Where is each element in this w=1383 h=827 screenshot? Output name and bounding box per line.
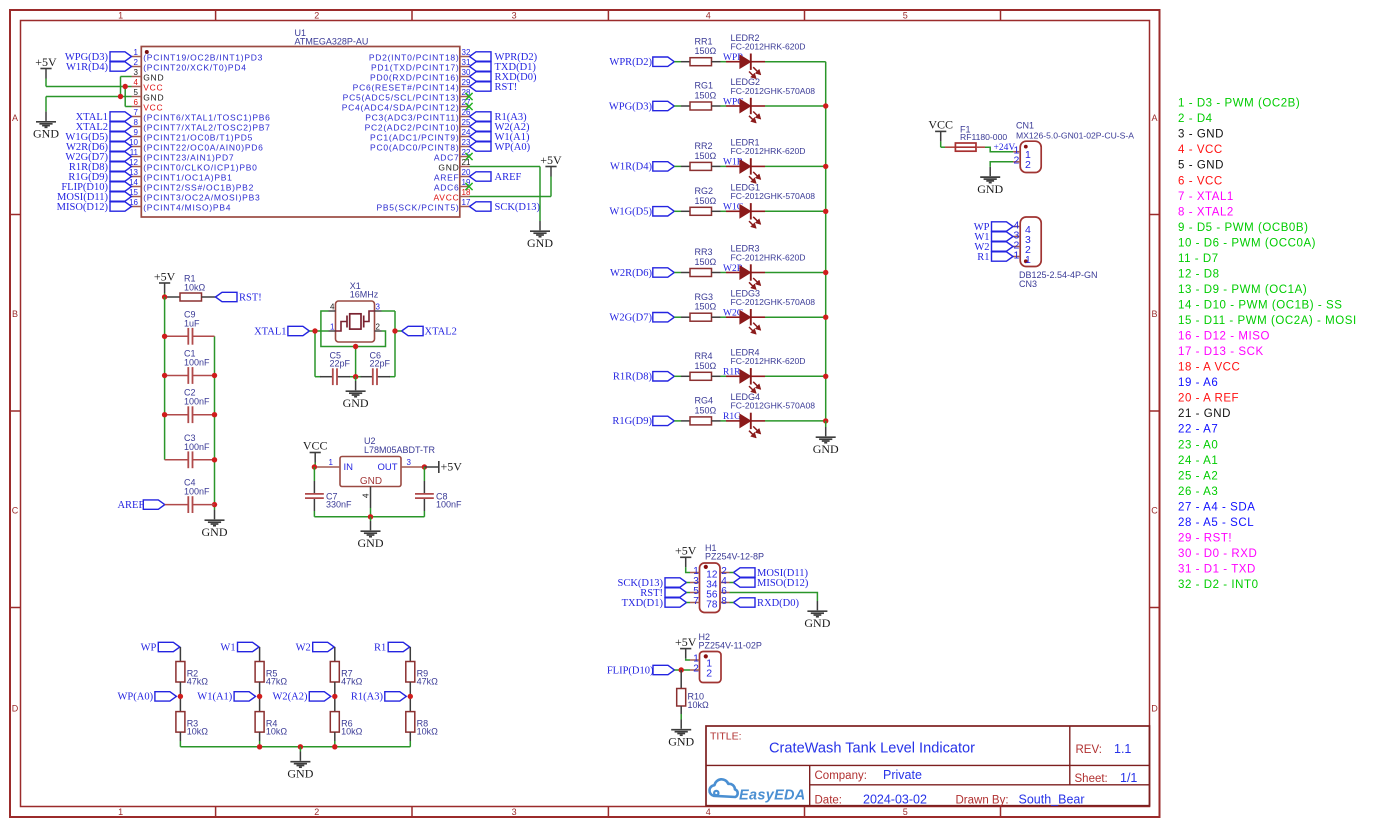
svg-text:150Ω: 150Ω — [695, 405, 717, 415]
svg-text:R1(A3): R1(A3) — [351, 692, 384, 703]
net flag R1G(D9) — [68, 172, 131, 183]
resistor R6 — [330, 712, 362, 737]
X1 pin 1 — [329, 322, 336, 331]
svg-text:(PCINT19/OC2B/INT1)PD3: (PCINT19/OC2B/INT1)PD3 — [143, 53, 263, 63]
net flag W1R(D4) — [66, 62, 132, 73]
wire XTAL1 to X1 pin1 — [309, 331, 328, 377]
svg-text:FC-2012GHK-570A08: FC-2012GHK-570A08 — [731, 297, 816, 307]
svg-text:4: 4 — [362, 493, 371, 498]
net flag W2G(D7) — [65, 152, 131, 163]
svg-text:9 - D5 - PWM (OCB0B): 9 - D5 - PWM (OCB0B) — [1178, 222, 1308, 234]
junction LED rail row 3 — [823, 164, 828, 169]
net flag RST! — [216, 292, 262, 303]
svg-text:+5V: +5V — [675, 635, 697, 649]
svg-text:W1R(D4): W1R(D4) — [66, 62, 108, 73]
U1 pin function list — [1178, 98, 1357, 591]
wire flag to RG3 — [674, 316, 681, 318]
sheet border inner frame — [21, 21, 1150, 807]
svg-text:24 - A1: 24 - A1 — [1178, 455, 1218, 467]
svg-text:22pF: 22pF — [370, 359, 391, 369]
svg-text:WP(A0): WP(A0) — [118, 692, 154, 703]
svg-text:47kΩ: 47kΩ — [341, 677, 363, 687]
svg-text:25 - A2: 25 - A2 — [1178, 470, 1218, 482]
U1 pin 21 — [438, 158, 471, 173]
svg-text:R1: R1 — [374, 642, 386, 653]
svg-text:PC3(ADC3/PCINT11): PC3(ADC3/PCINT11) — [365, 113, 459, 123]
wire XTAL2 to X1 pin3 — [382, 311, 402, 377]
svg-text:FC-2012GHK-570A08: FC-2012GHK-570A08 — [731, 86, 816, 96]
net flag WP(A0) — [118, 692, 177, 703]
svg-text:A: A — [1151, 113, 1157, 123]
svg-text:1: 1 — [1025, 254, 1031, 266]
svg-text:RST!: RST! — [495, 82, 518, 93]
U1 pin 17 — [376, 198, 470, 213]
junction U2 gnd — [368, 514, 373, 519]
net flag W2R(D6) LED row — [610, 268, 674, 279]
svg-text:150Ω: 150Ω — [695, 46, 717, 56]
svg-text:1: 1 — [1013, 250, 1019, 262]
U1 pin 26 — [365, 108, 471, 123]
svg-text:OUT: OUT — [377, 462, 397, 473]
svg-text:30: 30 — [462, 68, 471, 77]
wire R8 to gnd rail — [409, 732, 411, 747]
svg-text:(PCINT23/AIN1)PD7: (PCINT23/AIN1)PD7 — [143, 153, 234, 163]
svg-text:17: 17 — [462, 198, 471, 207]
U1 pin 22 — [434, 148, 471, 163]
svg-text:1.1: 1.1 — [1114, 742, 1131, 756]
svg-text:31: 31 — [462, 58, 471, 67]
svg-text:31 - D1 - TXD: 31 - D1 - TXD — [1178, 564, 1256, 576]
svg-text:RG4: RG4 — [695, 396, 714, 406]
svg-text:28 - A5 - SCL: 28 - A5 - SCL — [1178, 517, 1254, 529]
svg-text:(PCINT4/MISO)PB4: (PCINT4/MISO)PB4 — [143, 203, 231, 213]
svg-text:(PCINT20/XCK/T0)PD4: (PCINT20/XCK/T0)PD4 — [143, 63, 247, 73]
svg-text:(PCINT6/XTAL1/TOSC1)PB6: (PCINT6/XTAL1/TOSC1)PB6 — [143, 113, 270, 123]
svg-text:330nF: 330nF — [326, 500, 352, 510]
wire divider ground rail — [180, 746, 410, 748]
ground GND LED rail — [813, 421, 839, 456]
svg-text:10kΩ: 10kΩ — [341, 727, 363, 737]
svg-text:2: 2 — [134, 58, 139, 67]
svg-text:Company:: Company: — [815, 770, 867, 782]
svg-text:FC-2012HRK-620D: FC-2012HRK-620D — [731, 42, 806, 52]
svg-text:PD0(RXD/PCINT16): PD0(RXD/PCINT16) — [370, 73, 459, 83]
svg-text:6: 6 — [134, 98, 139, 107]
svg-text:17 - D13 - SCK: 17 - D13 - SCK — [1178, 346, 1264, 358]
svg-text:4: 4 — [706, 11, 711, 21]
svg-text:MISO(D12): MISO(D12) — [757, 578, 809, 589]
junction WP(A0) — [178, 694, 183, 699]
U1 pin 18 — [434, 188, 471, 203]
resistor R3 — [176, 712, 208, 737]
svg-text:+5V: +5V — [154, 269, 176, 283]
junction C1 left — [162, 373, 167, 378]
LED LEDR1 FC-2012HRK-620D — [726, 138, 806, 184]
svg-text:47kΩ: 47kΩ — [266, 677, 288, 687]
resistor RG4 — [681, 396, 721, 425]
resistor R4 — [255, 712, 287, 737]
ground GND at U1 pin21 — [527, 221, 553, 250]
crystal X1 body — [336, 281, 379, 342]
svg-text:VCC: VCC — [143, 83, 163, 93]
svg-text:GND: GND — [813, 442, 839, 456]
LED LEDG4 FC-2012GHK-570A08 — [726, 392, 815, 438]
junction at U1 pin4 — [123, 84, 128, 89]
svg-text:8 - XTAL2: 8 - XTAL2 — [1178, 206, 1234, 218]
svg-text:Drawn By:: Drawn By: — [956, 794, 1009, 806]
svg-text:2: 2 — [1013, 155, 1019, 167]
net flag R1(A3) — [351, 692, 406, 703]
svg-text:16MHz: 16MHz — [350, 290, 379, 300]
svg-text:REV:: REV: — [1076, 744, 1102, 756]
EasyEDA logo — [710, 779, 806, 803]
svg-text:C: C — [12, 506, 19, 516]
junction C2 right — [212, 412, 217, 417]
power +5V at U1 left — [35, 55, 57, 79]
capacitor C7 — [305, 467, 352, 517]
net flag XTAL1 — [76, 112, 132, 123]
svg-text:23: 23 — [462, 138, 471, 147]
wire LEDR3 to cathode rail — [765, 272, 826, 274]
junction C9 left — [162, 334, 167, 339]
net flag MOSI(D11) — [57, 192, 131, 203]
wire LEDG4 to cathode rail — [765, 420, 826, 422]
svg-text:13 - D9 - PWM (OC1A): 13 - D9 - PWM (OC1A) — [1178, 284, 1307, 296]
svg-text:8: 8 — [721, 596, 727, 607]
svg-text:R1G(D9): R1G(D9) — [612, 416, 652, 427]
svg-text:W2: W2 — [296, 642, 311, 653]
junction C1 right — [212, 373, 217, 378]
U2 pin 4 — [362, 487, 371, 509]
svg-text:RR4: RR4 — [695, 351, 713, 361]
power +5V at U2 output — [424, 460, 462, 474]
svg-text:WPR(D2): WPR(D2) — [609, 57, 652, 68]
svg-text:GND: GND — [143, 73, 164, 83]
wire right capacitor rail — [214, 336, 216, 510]
svg-text:C: C — [1151, 506, 1158, 516]
frame row ticks — [10, 215, 1160, 608]
capacitor C9 — [165, 309, 215, 344]
svg-text:RR3: RR3 — [695, 247, 713, 257]
capacitor C8 — [415, 467, 462, 517]
svg-text:150Ω: 150Ω — [695, 196, 717, 206]
svg-text:32 - D2 - INT0: 32 - D2 - INT0 — [1178, 579, 1259, 591]
ground GND at H1 pin6 — [804, 601, 830, 630]
net flag RST! at H1 — [640, 588, 690, 599]
wire flag to RG1 — [674, 105, 681, 107]
connector H2 PZ254V-11-02P — [699, 632, 762, 683]
svg-text:22 - A7: 22 - A7 — [1178, 424, 1218, 436]
svg-text:3: 3 — [376, 302, 381, 311]
svg-text:VCC: VCC — [303, 439, 328, 453]
svg-text:PC6(RESET#/PCINT14): PC6(RESET#/PCINT14) — [353, 83, 460, 93]
junction C4 right — [212, 502, 217, 507]
connector CN3 DB125-2.54-4P-GN — [1019, 217, 1098, 289]
U1 pin 27 — [342, 98, 471, 113]
H1 pins 5 and 6 — [690, 586, 730, 600]
svg-text:4 - VCC: 4 - VCC — [1178, 144, 1223, 156]
svg-text:PC4(ADC4/SDA/PCINT12): PC4(ADC4/SDA/PCINT12) — [342, 103, 460, 113]
svg-text:TITLE:: TITLE: — [710, 731, 742, 743]
svg-text:RXD(D0): RXD(D0) — [757, 598, 799, 609]
CN3 pin 4 — [1013, 220, 1031, 236]
svg-text:1: 1 — [330, 322, 335, 331]
svg-text:1: 1 — [134, 48, 139, 57]
svg-text:PC1(ADC1/PCINT9): PC1(ADC1/PCINT9) — [370, 133, 459, 143]
svg-text:150Ω: 150Ω — [695, 361, 717, 371]
net flag W1 — [220, 642, 259, 653]
U1 pin 4 — [132, 78, 164, 93]
svg-text:SCK(D13): SCK(D13) — [495, 202, 541, 213]
svg-text:D: D — [12, 704, 19, 714]
svg-text:GND: GND — [143, 93, 164, 103]
wire flag to RR1 — [674, 61, 681, 63]
U1 pin 15 — [129, 188, 260, 203]
power +5V at H2 — [675, 635, 697, 659]
X1 pin 2 — [375, 322, 382, 331]
junction divider rail 3 — [332, 744, 337, 749]
net flag XTAL2 — [76, 122, 132, 133]
net flag W1 at CN3 — [974, 232, 1013, 243]
svg-text:3: 3 — [134, 68, 139, 77]
wire +5V to U1 pin18 AVCC — [470, 177, 552, 197]
svg-text:22pF: 22pF — [330, 359, 351, 369]
net flag MISO(D12) at H1 — [730, 578, 809, 589]
net flag R1R(D8) — [69, 162, 132, 173]
wire +5V to H2 pin1 — [686, 659, 690, 660]
svg-text:GND: GND — [33, 127, 59, 141]
svg-text:47kΩ: 47kΩ — [187, 677, 209, 687]
svg-text:12 - D8: 12 - D8 — [1178, 268, 1220, 280]
U1 pin 13 — [129, 168, 233, 183]
svg-text:24: 24 — [462, 128, 471, 137]
svg-text:3: 3 — [512, 11, 517, 21]
IC U1 ATMEGA328P-AU body — [141, 47, 460, 218]
svg-text:XTAL1: XTAL1 — [254, 326, 286, 337]
net flag WPR(D2) LED row — [609, 57, 674, 68]
svg-text:FLIP(D10): FLIP(D10) — [607, 665, 654, 676]
svg-text:+24V: +24V — [994, 143, 1016, 153]
junction crystal gnd — [353, 374, 358, 379]
net flag W1R(D4) LED row — [610, 162, 674, 173]
svg-text:30 - D0 - RXD: 30 - D0 - RXD — [1178, 548, 1257, 560]
svg-text:GND: GND — [977, 182, 1003, 196]
svg-text:MISO(D12): MISO(D12) — [57, 202, 109, 213]
svg-text:ADC7: ADC7 — [434, 153, 460, 163]
LED LEDG3 FC-2012GHK-570A08 — [726, 288, 815, 334]
U1 pin 2 — [132, 58, 247, 73]
svg-text:South_Bear: South_Bear — [1019, 792, 1085, 806]
wire RG1 to LEDG2 — [721, 105, 727, 107]
junction LED rail row 8 — [823, 418, 828, 423]
svg-text:2: 2 — [376, 322, 381, 331]
svg-text:2: 2 — [706, 667, 712, 679]
svg-text:RG3: RG3 — [695, 292, 714, 302]
U1 pin 11 — [130, 148, 235, 163]
net flag W2(A2) — [273, 692, 331, 703]
svg-text:100nF: 100nF — [436, 500, 462, 510]
svg-text:1: 1 — [118, 11, 123, 21]
svg-text:VCC: VCC — [143, 103, 163, 113]
svg-text:10kΩ: 10kΩ — [266, 727, 288, 737]
resistor R1 — [165, 274, 216, 302]
junction W2(A2) — [332, 694, 337, 699]
svg-text:150Ω: 150Ω — [695, 91, 717, 101]
net flag R1R(D8) LED row — [613, 372, 674, 383]
ground GND below C4 — [202, 510, 228, 539]
wire LEDG3 to cathode rail — [765, 316, 826, 318]
svg-text:GND: GND — [527, 236, 553, 250]
svg-text:(PCINT22/OC0A/AIN0)PD6: (PCINT22/OC0A/AIN0)PD6 — [143, 143, 263, 153]
svg-text:GND: GND — [358, 536, 384, 550]
svg-text:1: 1 — [329, 458, 334, 467]
svg-text:PD2(INT0/PCINT18): PD2(INT0/PCINT18) — [369, 53, 460, 63]
svg-text:5: 5 — [903, 11, 908, 21]
svg-text:100nF: 100nF — [184, 397, 210, 407]
wire VCC branch pin4 to pin6 — [125, 87, 131, 107]
junction divider rail 2 — [298, 744, 303, 749]
wire R1 divider node — [409, 682, 411, 712]
wire +5V to H1 pin1 — [686, 567, 690, 572]
net flag W1(A1) — [470, 132, 530, 143]
title block Company — [815, 768, 922, 782]
svg-text:25: 25 — [462, 118, 471, 127]
wire RG3 to LEDG3 — [721, 316, 727, 318]
net flag W2(A2) — [470, 122, 530, 133]
wire flag to RR4 — [674, 375, 681, 377]
no-connect X pin 22 — [465, 153, 472, 160]
U1 pin 30 — [370, 68, 471, 83]
junction LED rail row 2 — [823, 103, 828, 108]
junction at R1 left — [162, 294, 167, 299]
svg-text:TXD(D1): TXD(D1) — [622, 598, 664, 609]
svg-text:WPG(D3): WPG(D3) — [609, 101, 653, 112]
capacitor C4 — [165, 478, 215, 513]
junction XTAL1 node — [312, 328, 317, 333]
svg-text:4: 4 — [706, 807, 711, 817]
junction U2 input — [312, 464, 317, 469]
X1 pin 4 — [329, 302, 336, 311]
wire W2 divider node — [334, 682, 336, 712]
net flag R1G(D9) LED row — [612, 416, 674, 427]
net flag XTAL1 — [254, 326, 309, 337]
svg-text:Private: Private — [883, 768, 922, 782]
svg-text:CN3: CN3 — [1019, 279, 1037, 289]
svg-text:PZ254V-11-02P: PZ254V-11-02P — [699, 641, 762, 651]
svg-text:W1(A1): W1(A1) — [197, 692, 232, 703]
wire flag to RG2 — [674, 210, 681, 212]
svg-text:RG2: RG2 — [695, 186, 714, 196]
svg-text:PD1(TXD/PCINT17): PD1(TXD/PCINT17) — [371, 63, 460, 73]
resistor RR3 — [681, 247, 721, 276]
svg-text:FC-2012HRK-620D: FC-2012HRK-620D — [731, 146, 806, 156]
LED LEDG2 FC-2012GHK-570A08 — [726, 77, 815, 123]
svg-text:(PCINT0/CLKO/ICP1)PB0: (PCINT0/CLKO/ICP1)PB0 — [143, 163, 257, 173]
H2 pin 1 — [690, 654, 712, 670]
svg-text:W1G(D5): W1G(D5) — [609, 207, 652, 218]
title block frame — [706, 726, 1150, 806]
svg-text:RST!: RST! — [239, 292, 262, 303]
svg-text:7: 7 — [693, 596, 699, 607]
svg-text:14 - D10 - PWM (OC1B) - SS: 14 - D10 - PWM (OC1B) - SS — [1178, 299, 1342, 311]
net flag MISO(D12) — [57, 202, 132, 213]
wire RR1 to LEDR2 — [721, 61, 727, 63]
fuse F1 RF1180-000 — [945, 125, 1007, 152]
wire R3 to gnd rail — [179, 732, 181, 747]
svg-text:15 - D11 - PWM (OC2A) - MOSI: 15 - D11 - PWM (OC2A) - MOSI — [1178, 315, 1357, 327]
U1 pin 31 — [371, 58, 471, 73]
U1 pin 19 — [434, 178, 471, 193]
resistor RR1 — [681, 36, 721, 65]
net flag RST! — [470, 82, 518, 93]
net flag W1(A1) — [197, 692, 255, 703]
H1 pins 7 and 8 — [690, 596, 730, 610]
resistor RR4 — [681, 351, 721, 380]
svg-text:2024-03-02: 2024-03-02 — [863, 792, 927, 806]
wire WP divider node — [179, 682, 181, 712]
ground GND below crystal — [343, 377, 369, 410]
wire R6 to gnd rail — [334, 732, 336, 747]
wire flag to RG4 — [674, 420, 681, 422]
svg-text:100nF: 100nF — [184, 358, 210, 368]
svg-text:6 - VCC: 6 - VCC — [1178, 175, 1223, 187]
no-connect X pin 27 — [465, 103, 472, 110]
resistor R9 — [406, 647, 438, 687]
H1 pins 1 and 2 — [690, 566, 730, 580]
junction W1(A1) — [257, 694, 262, 699]
no-connect X pin 19 — [465, 183, 472, 190]
svg-text:GND: GND — [287, 767, 313, 781]
svg-text:RR1: RR1 — [695, 36, 713, 46]
net flag FLIP(D10) — [61, 182, 131, 193]
net flag SCK(D13) at H1 — [617, 578, 690, 589]
svg-text:PB5(SCK/PCINT5): PB5(SCK/PCINT5) — [376, 203, 459, 213]
wire GND to U1 pin 5 — [46, 96, 132, 98]
U1 pin 5 — [132, 88, 165, 103]
svg-text:5: 5 — [903, 807, 908, 817]
net flag W2G(D7) LED row — [609, 313, 674, 324]
U1 pin 7 — [132, 108, 271, 123]
svg-text:3 - GND: 3 - GND — [1178, 129, 1224, 141]
wire RG4 to LEDG4 — [721, 420, 727, 422]
svg-text:PC5(ADC5/SCL/PCINT13): PC5(ADC5/SCL/PCINT13) — [343, 93, 460, 103]
svg-text:29: 29 — [462, 78, 471, 87]
U1 pin 32 — [369, 48, 471, 63]
U1 pin 12 — [129, 158, 258, 173]
net flag W1G(D5) LED row — [609, 207, 674, 218]
net flag SCK(D13) — [470, 202, 541, 213]
svg-text:PC0(ADC0/PCINT8): PC0(ADC0/PCINT8) — [370, 143, 459, 153]
net flag WPG(D3) LED row — [609, 101, 674, 112]
svg-text:W1: W1 — [220, 642, 235, 653]
H2 pin 2 — [690, 664, 712, 680]
capacitor C1 — [165, 349, 215, 384]
ground GND at U1 left — [33, 97, 59, 141]
net flag XTAL2 — [402, 326, 457, 337]
svg-text:2: 2 — [314, 807, 319, 817]
svg-text:10kΩ: 10kΩ — [187, 727, 209, 737]
svg-text:FC-2012HRK-620D: FC-2012HRK-620D — [731, 356, 806, 366]
svg-text:B: B — [1151, 309, 1157, 319]
net flag TXD(D1) at H1 — [622, 598, 690, 609]
wire U1 pin21 to ground — [470, 167, 541, 222]
svg-text:CN1: CN1 — [1016, 121, 1034, 131]
svg-text:Date:: Date: — [815, 794, 843, 806]
svg-text:3: 3 — [407, 458, 412, 467]
svg-text:20: 20 — [462, 168, 471, 177]
svg-text:AVCC: AVCC — [434, 193, 460, 203]
wire LEDR1 to cathode rail — [765, 165, 826, 167]
